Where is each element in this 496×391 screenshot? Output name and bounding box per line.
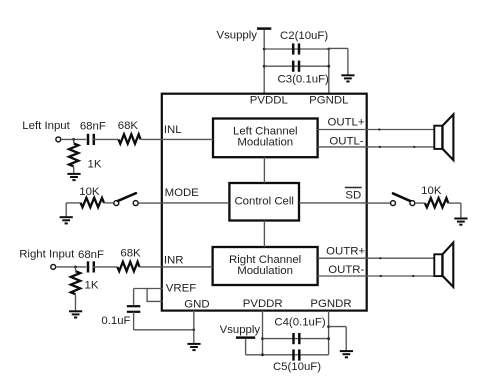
pin label PGNDL: [309, 94, 348, 106]
svg-text:PVDDR: PVDDR: [243, 298, 283, 310]
label 68K (left): [118, 120, 139, 132]
block Control Cell: [229, 183, 299, 221]
wire C4 row: [263, 338, 329, 340]
wire 1K to ground (left): [73, 167, 75, 174]
pin label OUTL+: [327, 117, 364, 129]
svg-text:VREF: VREF: [166, 283, 196, 295]
pin label VREF: [166, 283, 196, 295]
wire PVDDR drop: [262, 311, 264, 355]
label 68K (right): [120, 248, 141, 260]
wire SD pin to switch: [367, 202, 391, 204]
wire MODE pin to Control Cell: [163, 202, 230, 204]
svg-text:Right Channel: Right Channel: [229, 254, 301, 266]
svg-text:68nF: 68nF: [80, 121, 106, 133]
ground (bottom supply): [340, 351, 353, 357]
pin label GND: [184, 299, 209, 311]
capacitor C3: [293, 61, 299, 72]
svg-text:OUTR-: OUTR-: [328, 264, 364, 276]
label C2 value: [280, 30, 328, 42]
wire C5 row: [246, 354, 329, 356]
wire Control Cell to SD pin: [299, 202, 367, 204]
pin label INR: [164, 255, 184, 267]
terminal Right Input: [51, 264, 56, 269]
wire Right Input to cap: [56, 266, 86, 268]
svg-text:C3(0.1uF): C3(0.1uF): [278, 73, 329, 85]
pin label PVDDL: [250, 94, 288, 106]
svg-text:68K: 68K: [118, 120, 139, 132]
wire 68nF to 68K (left): [93, 138, 118, 140]
wire Vsupply stem to PVDDL pin: [263, 30, 265, 94]
resistor 1K (left): [69, 143, 78, 166]
wire Vsupply stem (bottom): [245, 339, 247, 355]
power supply Vsupply T-bar (bottom): [236, 336, 255, 339]
label 68nF (right): [78, 249, 104, 261]
wire C2 row: [264, 48, 329, 50]
wire INR pin to Right Channel Modulation: [163, 266, 213, 268]
pin label OUTR-: [328, 264, 364, 276]
svg-text:Vsupply: Vsupply: [220, 324, 261, 336]
node OUTR+ wire joint: [379, 257, 381, 259]
capacitor C5: [294, 349, 300, 360]
wire to bottom ground: [329, 327, 347, 352]
ground (MODE): [60, 217, 73, 223]
wire C3 row: [264, 65, 329, 67]
pin label MODE: [165, 187, 200, 199]
speaker left channel: [434, 114, 453, 160]
svg-text:GND: GND: [184, 299, 209, 311]
label 10K (left): [79, 186, 100, 198]
capacitor 0.1uF (VREF): [127, 306, 141, 312]
svg-text:PGNDL: PGNDL: [309, 94, 348, 106]
IC body outline: [162, 94, 367, 311]
svg-text:Left Channel: Left Channel: [233, 125, 298, 137]
node right 1K tap: [74, 266, 77, 269]
wire 68nF to 68K (right): [93, 266, 117, 268]
resistor 68K (left): [119, 134, 141, 143]
wire switch to 10K (right): [415, 202, 425, 204]
wire OUTL- to speaker: [318, 146, 434, 148]
wire PGNDL riser: [328, 49, 330, 94]
wire OUTR+ to speaker: [318, 257, 434, 259]
node PVDDR-C4 junction: [261, 337, 264, 340]
svg-text:MODE: MODE: [165, 187, 200, 199]
switch S1 pole terminal: [114, 201, 119, 206]
wire 0.1uF to GND net: [134, 312, 194, 330]
label 1K (left): [88, 158, 102, 170]
capacitor C4: [294, 333, 300, 344]
svg-text:C4(0.1uF): C4(0.1uF): [274, 316, 325, 328]
ground (right 1K): [69, 311, 82, 317]
wire VREF upper stub: [134, 289, 163, 305]
svg-text:1K: 1K: [85, 280, 99, 292]
wire left 1K tap down: [73, 139, 75, 143]
ground (top supply): [341, 75, 354, 81]
resistor 10K (right): [425, 198, 448, 207]
wire 10K to ground (right): [448, 203, 461, 219]
svg-text:10K: 10K: [421, 185, 442, 197]
switch S2 throw terminal: [391, 201, 396, 206]
node PVDDR-C5 junction: [261, 353, 264, 356]
label C4 value: [274, 316, 325, 328]
node OUTL+ wire joint: [378, 128, 380, 130]
wire Control Cell to Right Channel Modulation: [263, 221, 265, 248]
ground (GND pin): [187, 344, 200, 350]
node Vsupply-C3 junction: [263, 65, 266, 68]
svg-text:PVDDL: PVDDL: [250, 94, 288, 106]
resistor 1K (right): [71, 271, 80, 294]
svg-text:68nF: 68nF: [78, 249, 104, 261]
speaker right channel: [434, 243, 453, 287]
node GND junction: [192, 328, 195, 331]
wire PGNDR drop: [328, 311, 330, 355]
svg-text:Right Input: Right Input: [19, 249, 75, 261]
wire Left Channel Modulation to Control Cell: [263, 157, 265, 183]
svg-text:SD: SD: [345, 189, 361, 201]
svg-text:10K: 10K: [79, 186, 100, 198]
label Right Input: [19, 249, 75, 261]
svg-text:Modulation: Modulation: [237, 137, 293, 149]
capacitor 68nF (left): [88, 134, 94, 145]
node OUTR- wire joint: [380, 275, 382, 277]
pin label PVDDR: [243, 298, 283, 310]
svg-text:INL: INL: [164, 124, 182, 136]
wire switch to MODE pin: [138, 202, 163, 204]
wire VREF pin step: [147, 288, 163, 302]
svg-text:OUTR+: OUTR+: [326, 246, 365, 258]
svg-text:Control Cell: Control Cell: [234, 195, 294, 207]
terminal Left Input: [56, 137, 61, 142]
label C5 value: [273, 361, 321, 373]
svg-text:Vsupply: Vsupply: [216, 30, 257, 42]
resistor 10K (left): [81, 198, 104, 207]
node C2-PGNDL corner junction: [327, 48, 330, 51]
block Left Channel Modulation: [213, 119, 318, 158]
pin label INL: [164, 124, 182, 136]
label Left Input: [22, 120, 70, 132]
capacitor 68nF (right): [88, 261, 94, 272]
ground (SD 10K): [454, 219, 467, 225]
power supply Vsupply T-bar (top): [257, 27, 271, 30]
resistor 68K (right): [117, 262, 139, 271]
wire MODE ground stub: [66, 203, 81, 217]
label 1K (right): [85, 280, 99, 292]
svg-text:1K: 1K: [88, 158, 102, 170]
block Right Channel Modulation: [213, 247, 318, 285]
wire GND pin to ground: [193, 311, 195, 344]
wire to top ground: [329, 48, 348, 75]
node PGNDR branch junction: [327, 325, 330, 328]
capacitor C2: [293, 43, 299, 54]
wire 68K to INR pin: [139, 266, 162, 268]
wire right 1K tap down: [75, 267, 77, 271]
switch S1 throw terminal: [133, 201, 138, 206]
wire OUTR- to speaker: [318, 275, 434, 277]
power supply Vsupply label (bottom): [220, 324, 261, 336]
label 68nF (left): [80, 121, 106, 133]
node OUTL- wire joint 2: [413, 146, 415, 148]
label 10K (right): [421, 185, 442, 197]
wire 68K to INL pin: [141, 138, 163, 140]
switch S2 lever: [393, 193, 411, 201]
switch S1 lever: [118, 193, 136, 201]
svg-text:INR: INR: [164, 255, 184, 267]
svg-text:PGNDR: PGNDR: [310, 298, 351, 310]
node Vsupply-C2 junction: [263, 48, 266, 51]
node PGNDR-C4 junction: [327, 337, 330, 340]
svg-text:OUTL-: OUTL-: [329, 135, 363, 147]
svg-text:0.1uF: 0.1uF: [101, 315, 130, 327]
pin label SD with overline: [345, 188, 362, 202]
node OUTL- wire joint: [379, 146, 381, 148]
ground (left 1K): [67, 174, 80, 180]
node C3-PGNDL junction: [327, 65, 330, 68]
svg-text:OUTL+: OUTL+: [327, 117, 364, 129]
wire INL pin to Left Channel Modulation: [163, 138, 213, 140]
svg-text:C2(10uF): C2(10uF): [280, 30, 328, 42]
pin label OUTL-: [329, 135, 363, 147]
svg-text:Modulation: Modulation: [237, 265, 293, 277]
node OUTR- wire joint 2: [412, 275, 414, 277]
pin label OUTR+: [326, 246, 365, 258]
svg-text:Left Input: Left Input: [22, 120, 70, 132]
wire OUTL+ to speaker: [318, 129, 434, 131]
power supply Vsupply label (top): [216, 30, 257, 42]
wire Left Input to C1: [61, 138, 86, 140]
pin label PGNDR: [310, 298, 351, 310]
node left 1K tap: [72, 138, 75, 141]
wire 1K to ground (right): [75, 295, 77, 312]
label 0.1uF: [101, 315, 130, 327]
label C3 value: [278, 73, 329, 85]
svg-text:68K: 68K: [120, 248, 141, 260]
svg-text:C5(10uF): C5(10uF): [273, 361, 321, 373]
switch S2 pole terminal: [410, 201, 415, 206]
wire 10K to switch (left): [104, 202, 114, 204]
